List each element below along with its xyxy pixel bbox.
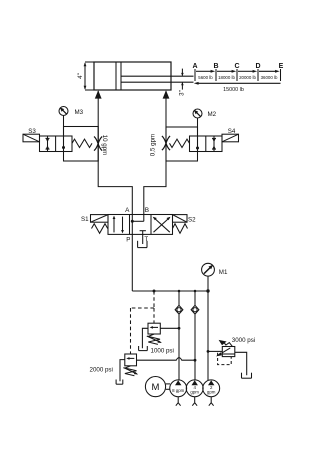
wire cap-side main line <box>98 91 132 215</box>
svg-text:A: A <box>192 63 197 70</box>
pump 2 suction <box>192 397 197 406</box>
cylinder rod port arrow <box>163 90 170 98</box>
svg-text:8 gpm: 8 gpm <box>172 388 185 393</box>
wire gauge M1 stub <box>207 276 209 291</box>
pump 3 suction <box>209 397 214 406</box>
flow control envelope left <box>64 127 99 162</box>
solenoid S3 <box>23 134 40 142</box>
svg-text:P: P <box>126 236 130 243</box>
svg-text:S4: S4 <box>228 128 236 135</box>
svg-text:4": 4" <box>77 73 84 79</box>
wire pump3 riser <box>207 291 209 380</box>
svg-text:D: D <box>255 63 260 70</box>
relief valve 2000 psi <box>124 354 139 376</box>
dimension 4 in <box>77 62 94 90</box>
directional valve left position arrows <box>113 216 124 234</box>
node relief 3000 tee <box>207 350 210 353</box>
tank relief 3000 <box>242 373 252 379</box>
gauge M1 <box>202 263 215 276</box>
valve S3 body <box>40 136 73 152</box>
svg-text:S2: S2 <box>188 216 196 223</box>
gauge M2 <box>193 109 202 118</box>
wire relief 3000 inlet <box>208 350 223 352</box>
svg-text:0,5 gpm: 0,5 gpm <box>149 134 156 156</box>
gauge M3 <box>59 107 68 116</box>
wire relief 2000 inlet with hop <box>137 358 196 361</box>
node S3 valve port junction <box>62 146 65 149</box>
coupling motor to pump <box>166 384 170 389</box>
relief valve 3000 psi <box>216 340 235 357</box>
wire P riser <box>131 234 133 291</box>
svg-text:A: A <box>125 207 130 214</box>
directional valve body <box>108 215 173 235</box>
svg-text:1000 psi: 1000 psi <box>151 347 174 354</box>
directional valve right position crossed arrows <box>153 217 171 232</box>
svg-text:2000 psi: 2000 psi <box>90 366 113 373</box>
wire gauge M3 to valve S3 port <box>63 116 65 148</box>
wire pump1 riser <box>178 291 180 305</box>
valve S3 check symbol <box>46 136 50 152</box>
valve S4 body <box>190 136 223 152</box>
svg-text:gpm: gpm <box>207 390 216 395</box>
wire relief 3000 outlet <box>235 352 247 375</box>
solenoid S1 <box>91 215 109 223</box>
pump 2 4 gpm <box>186 380 203 397</box>
wire relief 2000 outlet <box>120 360 125 382</box>
flow control envelope right <box>166 127 198 161</box>
cylinder body <box>94 62 171 90</box>
directional valve centre position paths <box>131 215 146 235</box>
node gauge M1 junction <box>206 289 209 292</box>
pump 1 suction <box>176 397 181 406</box>
svg-text:M: M <box>152 382 160 393</box>
solenoid S4 <box>222 134 239 142</box>
svg-text:20000 lb: 20000 lb <box>239 75 256 80</box>
pump 3 2 gpm <box>203 380 220 397</box>
svg-text:C: C <box>234 63 239 70</box>
svg-text:T: T <box>144 236 148 243</box>
cylinder cap port arrow <box>95 90 102 98</box>
orifice 0,5 gpm <box>162 136 170 150</box>
node pilot tee <box>153 290 156 293</box>
wire rod-side main line <box>144 91 166 215</box>
pilot line dashed <box>131 291 155 354</box>
svg-text:B: B <box>213 63 218 70</box>
cylinder rod <box>122 75 194 77</box>
svg-text:3000 psi: 3000 psi <box>232 337 255 344</box>
svg-text:15000 lb: 15000 lb <box>223 87 244 93</box>
svg-text:E: E <box>279 63 284 70</box>
check valve 1 <box>175 305 183 314</box>
wire pump2 riser <box>194 291 196 305</box>
wire relief 1000 outlet <box>142 328 148 348</box>
svg-text:3": 3" <box>178 90 185 96</box>
wire gauge M2 to valve S4 port <box>197 118 199 148</box>
dimension 3 in <box>178 69 185 96</box>
svg-text:S1: S1 <box>81 216 89 223</box>
spring S2 side <box>173 224 188 234</box>
flow control spring right <box>170 139 190 147</box>
cylinder piston <box>115 62 117 90</box>
relief valve 1000 psi <box>147 323 162 344</box>
node pump2 branch <box>194 290 197 293</box>
svg-text:gpm: gpm <box>190 390 199 395</box>
orifice 10 gpm <box>94 137 102 151</box>
solenoid S2 <box>173 215 188 223</box>
wire relief 1000 inlet <box>160 327 179 329</box>
wire check valve 2 to pump 2 <box>194 314 196 380</box>
svg-text:10 gpm: 10 gpm <box>101 135 108 156</box>
pump 1 8 gpm <box>170 380 187 397</box>
force scale <box>192 63 283 93</box>
check valve 2 <box>191 305 199 314</box>
svg-text:S3: S3 <box>28 128 36 135</box>
wire pump header <box>132 290 208 292</box>
flow control spring left <box>72 139 92 147</box>
svg-text:M2: M2 <box>208 111 217 118</box>
node relief 1000 tee <box>178 327 181 330</box>
svg-text:5600 lb: 5600 lb <box>198 75 213 80</box>
node S4 valve port junction <box>196 147 199 150</box>
tank relief 2000 <box>116 380 123 385</box>
spring S1 side <box>92 224 108 234</box>
svg-text:M1: M1 <box>219 269 228 276</box>
pilot line relief 3000 dashed <box>218 353 232 365</box>
svg-text:B: B <box>145 207 149 214</box>
wire check valve 1 to pump 1 <box>178 314 180 380</box>
svg-text:M3: M3 <box>75 109 84 116</box>
tank at valve T port <box>138 234 147 247</box>
tank relief 1000 <box>139 346 148 351</box>
valve S4 check symbol <box>212 136 216 152</box>
node relief 2000 to pump2 <box>194 359 197 362</box>
motor M <box>145 377 165 397</box>
node pump1 branch <box>178 290 181 293</box>
svg-text:36000 lb: 36000 lb <box>261 75 278 80</box>
svg-text:18000 lb: 18000 lb <box>218 75 235 80</box>
